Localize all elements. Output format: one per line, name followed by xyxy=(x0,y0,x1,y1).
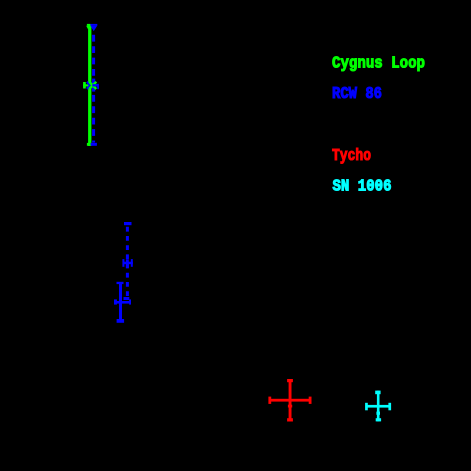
svg-text:Cygnus Loop: Cygnus Loop xyxy=(332,54,425,73)
svg-text:RCW 86: RCW 86 xyxy=(332,84,382,103)
svg-text:Tycho: Tycho xyxy=(332,146,371,165)
svg-text:SN 1006: SN 1006 xyxy=(333,177,392,196)
